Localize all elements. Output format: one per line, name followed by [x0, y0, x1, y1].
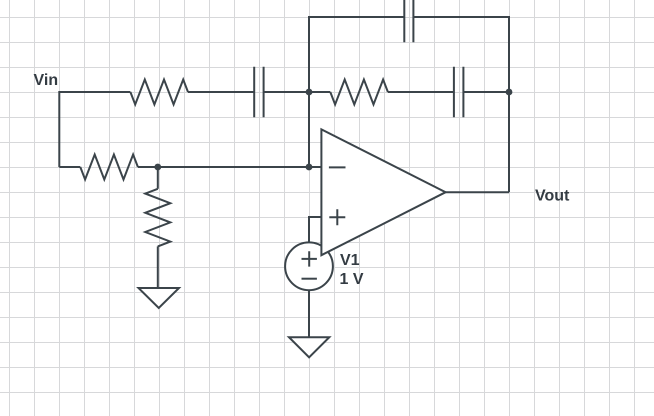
wire C2 to node B	[463, 91, 509, 93]
wire V1 to ground	[308, 290, 310, 337]
junction node B	[506, 89, 513, 96]
label Vin	[34, 73, 58, 85]
wire R2 to C2	[388, 91, 454, 93]
wire feedback left vertical	[309, 17, 404, 92]
wire node C to node D	[158, 166, 309, 168]
wire op-amp plus input to V1	[309, 217, 321, 242]
capacitor C3	[404, 0, 413, 42]
wire R4 to ground	[157, 246, 159, 288]
resistor R4	[145, 189, 170, 247]
capacitor C1	[254, 67, 263, 117]
op-amp U1	[321, 129, 445, 255]
wire node B to output	[508, 92, 510, 192]
label Vout	[535, 189, 569, 200]
resistor R3	[80, 155, 138, 180]
op-amp minus marker	[329, 166, 346, 168]
junction node C	[154, 164, 161, 171]
resistor R2	[330, 80, 388, 105]
wire R1 to C1	[188, 91, 254, 93]
wire mid rail to R3	[59, 166, 80, 168]
wire node D to op-amp minus	[309, 166, 321, 168]
capacitor C2	[454, 67, 464, 117]
ground symbol G1	[139, 288, 180, 308]
wire feedback right vertical	[413, 17, 509, 92]
wire R3 to node C	[138, 166, 158, 168]
wire node C down to R4	[157, 167, 159, 189]
wire node A to R2	[309, 91, 330, 93]
wire C1 to node A	[264, 91, 309, 93]
wire Vin input to R1	[59, 91, 130, 93]
ground symbol G2	[289, 337, 329, 357]
junction node A	[306, 89, 313, 96]
op-amp plus marker	[329, 209, 345, 225]
wire left rail down	[58, 91, 60, 167]
label 1 V	[341, 273, 364, 284]
V1 minus marker	[302, 278, 317, 280]
voltage source V1	[285, 242, 333, 290]
label V1	[340, 254, 359, 265]
resistor R1	[130, 80, 188, 105]
V1 plus marker	[302, 251, 317, 266]
junction node D	[306, 164, 313, 171]
wire node A to inverting input	[308, 92, 310, 167]
wire op-amp output	[446, 191, 509, 193]
